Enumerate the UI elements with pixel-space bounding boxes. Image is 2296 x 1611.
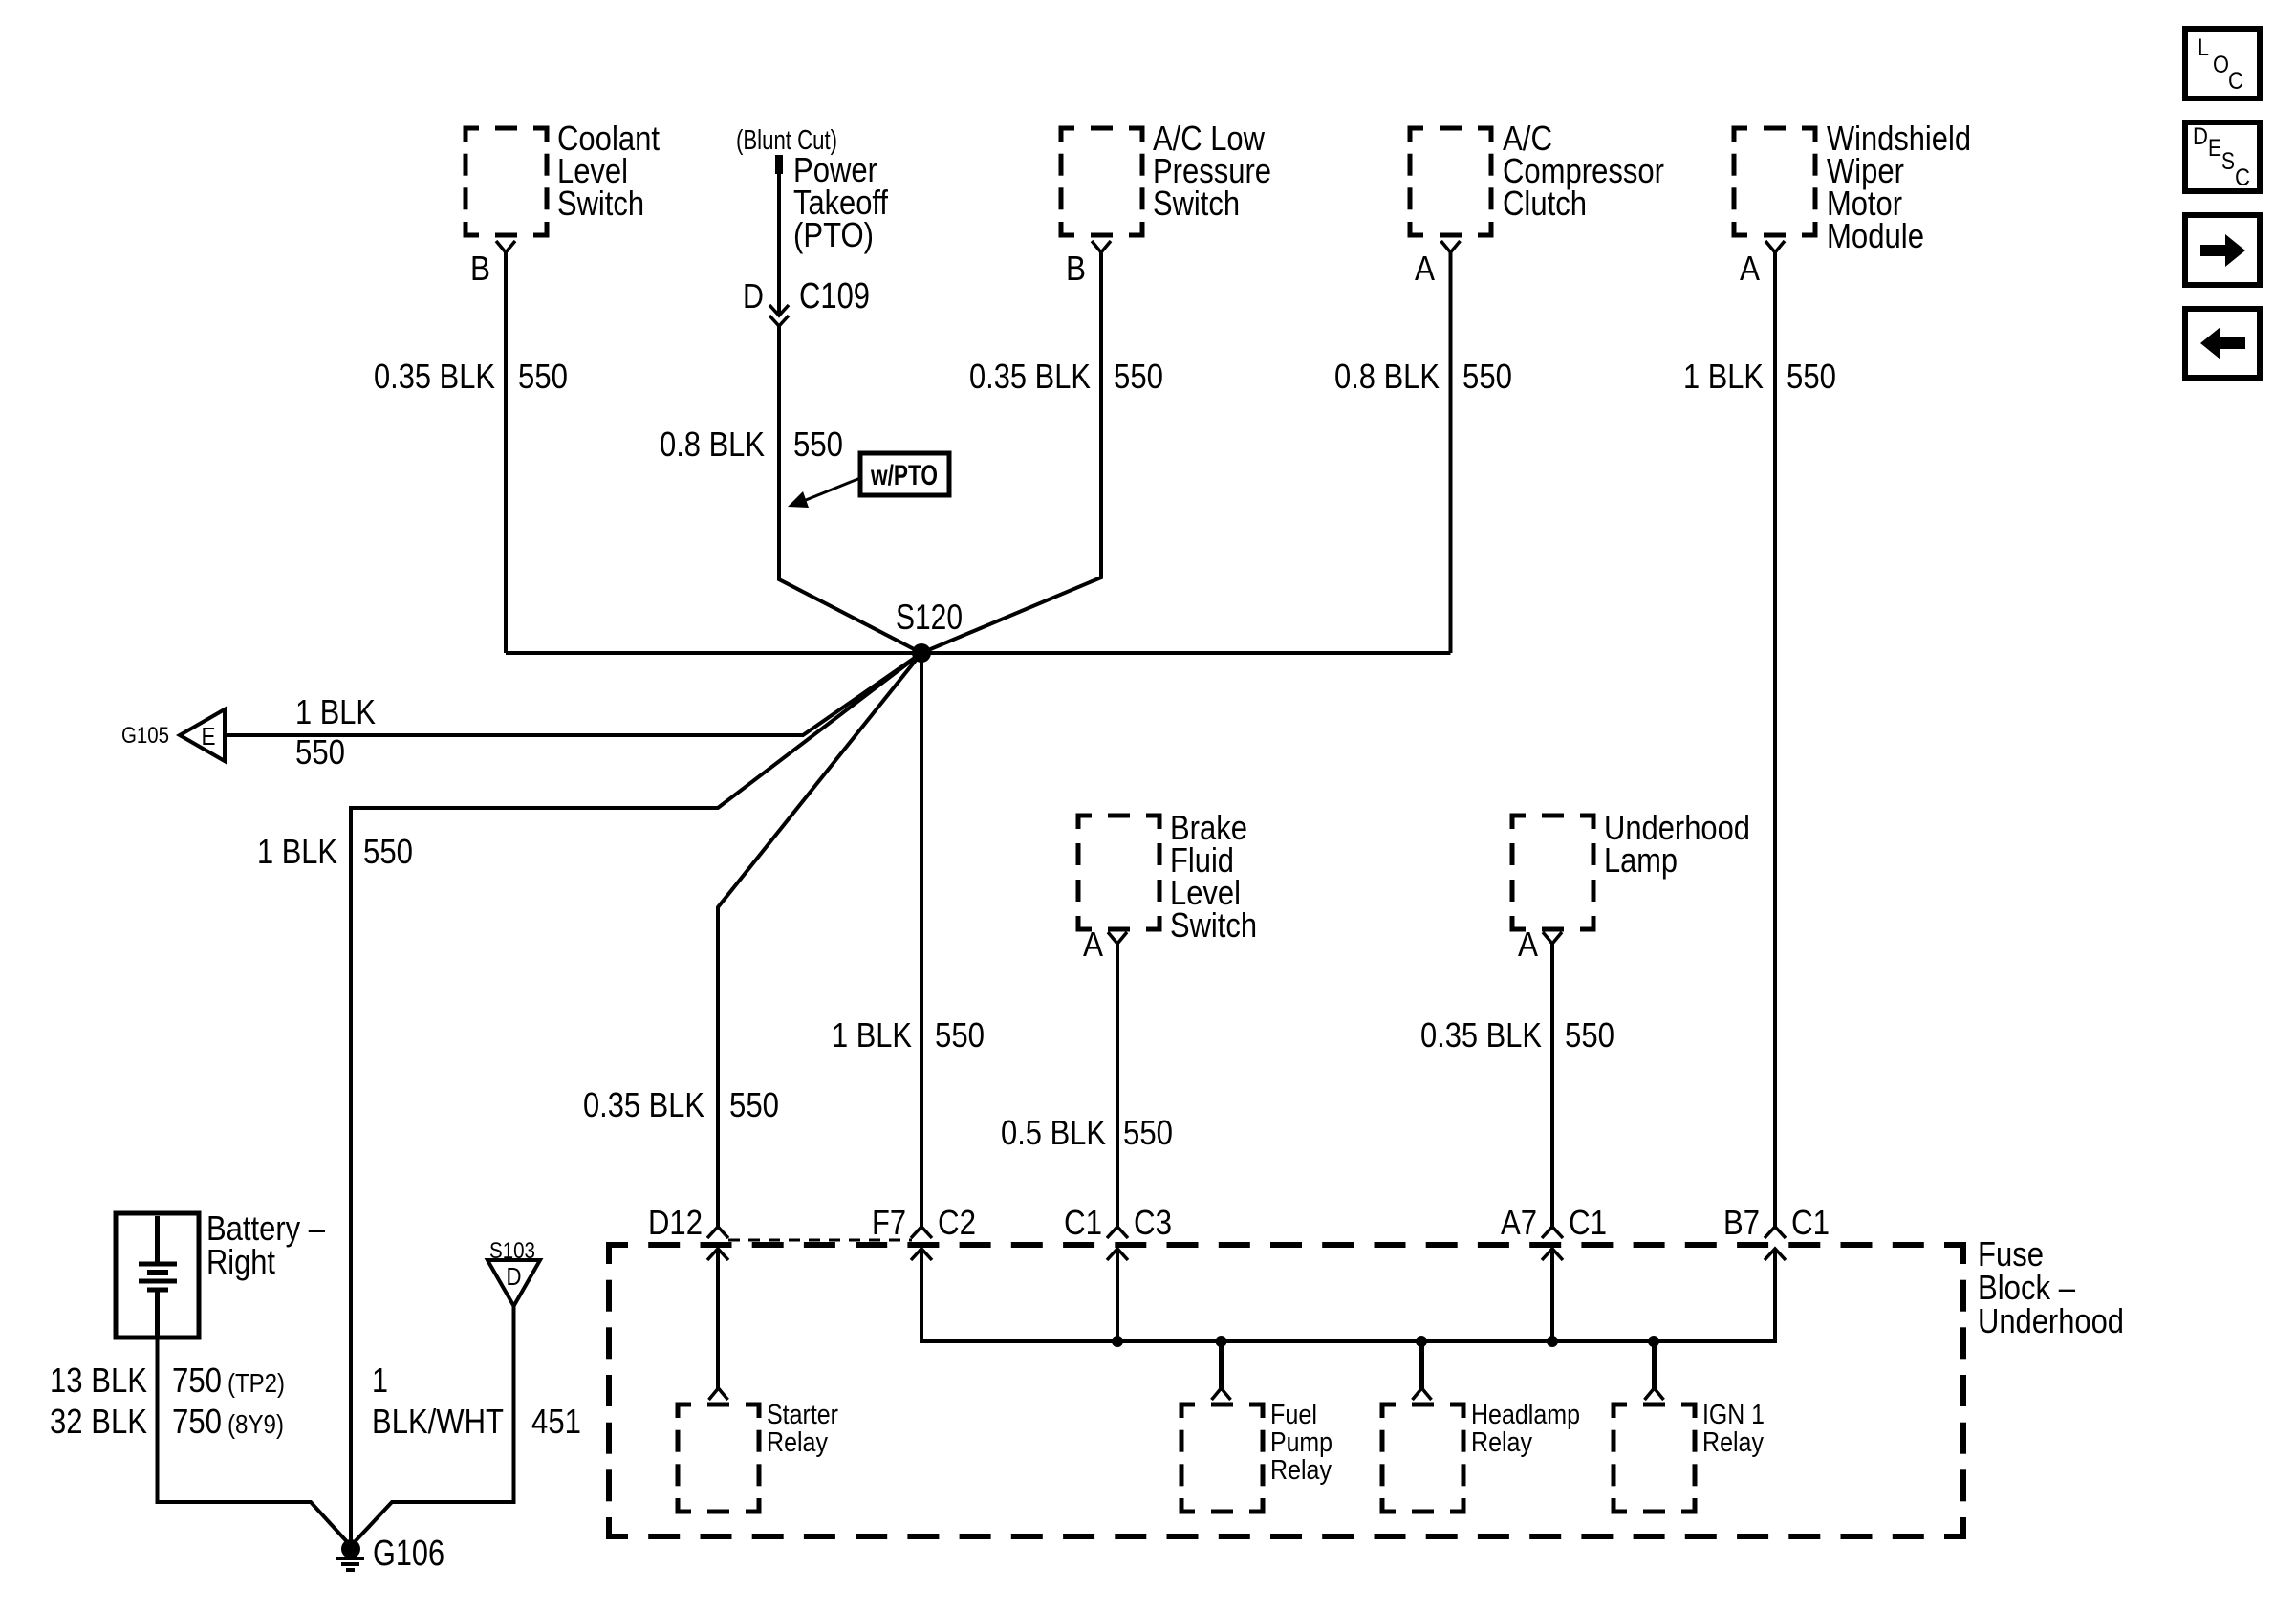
pin label B7 C1 — [1723, 1203, 1830, 1242]
svg-text:E: E — [202, 722, 216, 751]
connector fork at A/C Compressor Clutch pin A — [1441, 241, 1461, 252]
svg-text:E: E — [2208, 135, 2221, 162]
svg-text:BLK/WHT: BLK/WHT — [372, 1402, 504, 1441]
svg-text:550: 550 — [793, 425, 843, 464]
svg-text:1 BLK: 1 BLK — [257, 832, 337, 871]
svg-text:(TP2): (TP2) — [227, 1368, 285, 1398]
connector box Coolant Level Switch — [466, 128, 547, 235]
junction at C3 bus — [1112, 1336, 1123, 1347]
svg-text:1: 1 — [372, 1361, 388, 1400]
wire 0.35 BLK 550 from Coolant Level Switch to S120 — [504, 252, 508, 653]
wire label BLK/WHT 451 — [372, 1402, 581, 1441]
wire 1 BLK 550 from S120 to G105 — [225, 653, 921, 735]
svg-text:Clutch: Clutch — [1503, 184, 1587, 223]
svg-text:1 BLK: 1 BLK — [1683, 357, 1764, 396]
pin label C1 C3 — [1064, 1203, 1172, 1242]
svg-text:(PTO): (PTO) — [793, 215, 874, 254]
svg-text:B: B — [1066, 249, 1086, 288]
svg-text:(8Y9): (8Y9) — [227, 1409, 284, 1439]
label Battery - Right — [206, 1208, 325, 1281]
svg-text:S103: S103 — [489, 1238, 535, 1264]
svg-text:B7: B7 — [1723, 1203, 1760, 1242]
svg-text:Underhood: Underhood — [1978, 1301, 2124, 1340]
svg-text:C1: C1 — [1064, 1203, 1102, 1242]
svg-text:A: A — [1083, 925, 1103, 964]
svg-text:C: C — [2228, 68, 2243, 95]
fuse block underhood dashed outline — [609, 1245, 1963, 1536]
wire 0.35 BLK 550 from Underhood Lamp to fuse block pin C1 — [1550, 944, 1554, 1227]
svg-text:1 BLK: 1 BLK — [295, 692, 376, 731]
svg-text:32 BLK: 32 BLK — [50, 1402, 147, 1441]
svg-text:D: D — [507, 1262, 522, 1291]
junction at A7 bus — [1547, 1336, 1558, 1347]
svg-text:550: 550 — [729, 1085, 779, 1124]
svg-text:D: D — [2193, 123, 2208, 150]
svg-text:550: 550 — [1123, 1113, 1173, 1152]
pin label A7 C1 — [1501, 1203, 1607, 1242]
svg-text:550: 550 — [518, 357, 568, 396]
wire 0.8 BLK 550 from C109 to S120 — [779, 326, 921, 653]
svg-text:Switch: Switch — [557, 184, 644, 223]
svg-text:C109: C109 — [799, 276, 870, 316]
svg-text:A: A — [1518, 925, 1538, 964]
label Windshield Wiper Motor Module — [1827, 119, 1971, 255]
connector fork at Coolant Level Switch pin B — [496, 241, 515, 252]
svg-text:451: 451 — [531, 1402, 581, 1441]
wire 0.5 BLK 550 from Brake Fluid Level Switch to fuse block pin C3 — [1116, 944, 1119, 1227]
pin label D12 — [648, 1203, 703, 1242]
svg-text:C1: C1 — [1791, 1203, 1830, 1242]
svg-text:G105: G105 — [121, 723, 169, 749]
arrow into fuse block at pin F7/C2 — [911, 1249, 932, 1260]
connector dashed strip between D12 and F7 — [728, 1239, 912, 1242]
connector fork at fuse block pin D12 — [707, 1227, 728, 1238]
svg-text:Fuel: Fuel — [1270, 1400, 1317, 1430]
icon DESC box — [2185, 122, 2260, 191]
wire PTO lead to connector C109 — [777, 172, 781, 314]
wire 1 BLK 550 from S120 down to fuse block pin F7 — [920, 653, 923, 1227]
fuse block internal ground bus wire — [921, 1249, 1775, 1341]
label Power Takeoff (PTO) — [793, 150, 889, 254]
wire label 1 BLK 550 (wiper wire) — [1683, 357, 1836, 396]
label Starter Relay — [767, 1400, 838, 1458]
connector fork C109 — [769, 316, 789, 326]
wire label 0.35 BLK 550 (D12 wire) — [583, 1085, 779, 1124]
connector box Brake Fluid Level Switch — [1078, 816, 1159, 929]
svg-text:Switch: Switch — [1170, 905, 1257, 945]
label Fuel Pump Relay — [1270, 1400, 1332, 1486]
icon LOC box — [2185, 29, 2260, 98]
svg-text:550: 550 — [1787, 357, 1836, 396]
splice S120 — [912, 643, 931, 663]
svg-text:Module: Module — [1827, 216, 1924, 255]
ground symbol G106 — [336, 1558, 364, 1570]
svg-text:750: 750 — [172, 1361, 222, 1400]
connector box Windshield Wiper Motor Module — [1734, 128, 1815, 235]
wire label 1 BLK 550 (S120 to F7 wire) — [832, 1015, 985, 1055]
arrow into fuse block at pin C1/C3 — [1107, 1249, 1128, 1260]
svg-text:D: D — [743, 276, 764, 316]
wire label 0.35 BLK 550 (A/C low pressure wire) — [969, 357, 1163, 396]
arrow into connector C109 — [769, 305, 789, 316]
svg-text:C2: C2 — [938, 1203, 976, 1242]
connector fork at A/C Low Pressure Switch pin B — [1092, 241, 1111, 252]
icon previous-page arrow box — [2185, 309, 2260, 378]
connector box A/C Low Pressure Switch — [1061, 128, 1142, 235]
svg-text:Relay: Relay — [1270, 1455, 1332, 1486]
svg-text:Switch: Switch — [1153, 184, 1240, 223]
svg-text:A7: A7 — [1501, 1203, 1537, 1242]
connector fork at IGN 1 Relay — [1645, 1388, 1664, 1400]
svg-text:0.35 BLK: 0.35 BLK — [374, 357, 495, 396]
svg-text:550: 550 — [1114, 357, 1163, 396]
relay box Fuel Pump Relay — [1181, 1404, 1263, 1512]
connector fork at fuse block pin F7/C2 — [911, 1227, 932, 1238]
svg-text:A: A — [1415, 249, 1435, 288]
wire label 32 BLK 750 (8Y9) — [50, 1402, 284, 1441]
svg-text:1 BLK: 1 BLK — [832, 1015, 912, 1055]
svg-text:0.5 BLK: 0.5 BLK — [1001, 1113, 1106, 1152]
wire label 1 BLK 550 (G106 wire) — [257, 832, 413, 871]
wire label 0.35 BLK 550 (coolant wire) — [374, 357, 568, 396]
wire 1 BLK/WHT 451 from S103 to ground G106 — [351, 1306, 514, 1546]
callout box w/PTO — [860, 453, 949, 495]
wire stem below pin C1/C3 — [1116, 1249, 1119, 1341]
splice reference triangle S103 pin D — [487, 1260, 540, 1306]
callout arrow w/PTO — [788, 478, 860, 508]
battery box Battery - Right — [116, 1213, 199, 1338]
svg-text:A: A — [1740, 249, 1760, 288]
connector fork at Fuel Pump Relay — [1212, 1388, 1231, 1400]
junction at fuel pump relay branch — [1216, 1336, 1227, 1347]
connector fork at fuse block pin A7/C1 — [1542, 1227, 1563, 1238]
svg-text:L: L — [2198, 34, 2209, 61]
connector fork at Starter Relay — [709, 1388, 728, 1400]
svg-text:D12: D12 — [648, 1203, 703, 1242]
svg-text:IGN 1: IGN 1 — [1702, 1400, 1765, 1430]
svg-text:Pump: Pump — [1270, 1427, 1332, 1458]
connector fork at Headlamp Relay — [1413, 1388, 1432, 1400]
relay box IGN 1 Relay — [1614, 1404, 1695, 1512]
wire 0.35 BLK 550 from A/C Low Pressure Switch to S120 — [921, 252, 1101, 653]
svg-text:w/PTO: w/PTO — [870, 460, 938, 491]
relay box Headlamp Relay — [1382, 1404, 1463, 1512]
svg-text:13 BLK: 13 BLK — [50, 1361, 147, 1400]
svg-text:550: 550 — [363, 832, 413, 871]
svg-text:0.8 BLK: 0.8 BLK — [1334, 357, 1440, 396]
wire 0.35 BLK 550 from S120 to fuse block pin D12 — [718, 653, 921, 1227]
svg-text:550: 550 — [295, 732, 345, 772]
wire label 0.8 BLK 550 (compressor wire) — [1334, 357, 1512, 396]
battery symbol — [139, 1216, 177, 1336]
svg-text:0.8 BLK: 0.8 BLK — [660, 425, 765, 464]
wire 1 BLK 550 from S120 to ground G106 — [351, 653, 921, 1540]
svg-text:C: C — [2235, 164, 2250, 191]
svg-text:C3: C3 — [1134, 1203, 1172, 1242]
wire stem below pin A7/C1 — [1550, 1249, 1554, 1341]
svg-text:550: 550 — [1565, 1015, 1614, 1055]
arrow into fuse block at pin A7/C1 — [1542, 1249, 1563, 1260]
junction at headlamp relay branch — [1416, 1336, 1427, 1347]
connector fork at Underhood Lamp pin A — [1543, 932, 1562, 944]
svg-text:F7: F7 — [872, 1203, 906, 1242]
wire label 0.8 BLK 550 (PTO wire) — [660, 425, 843, 464]
connector fork at fuse block pin B7/C1 — [1765, 1227, 1786, 1238]
svg-text:B: B — [470, 249, 490, 288]
connector fork at Windshield Wiper Motor Module pin A — [1765, 241, 1785, 252]
svg-text:0.35 BLK: 0.35 BLK — [969, 357, 1091, 396]
blunt cut terminal of PTO lead — [775, 155, 783, 174]
connector box Underhood Lamp — [1512, 816, 1593, 929]
ground G106 junction — [341, 1539, 360, 1558]
svg-text:G106: G106 — [373, 1534, 444, 1574]
ground reference triangle G105 pin E — [180, 709, 225, 761]
pin label F7 C2 — [872, 1203, 976, 1242]
wire label 0.5 BLK 550 — [1001, 1113, 1173, 1152]
label Fuse Block - Underhood — [1978, 1234, 2124, 1340]
svg-text:Relay: Relay — [767, 1427, 828, 1458]
svg-text:O: O — [2213, 52, 2229, 78]
label Headlamp Relay — [1471, 1400, 1580, 1458]
svg-text:Relay: Relay — [1702, 1427, 1764, 1458]
svg-text:S: S — [2221, 148, 2235, 175]
label Underhood Lamp — [1604, 808, 1750, 880]
svg-text:0.35 BLK: 0.35 BLK — [583, 1085, 704, 1124]
wire 0.8 BLK 550 from A/C Compressor Clutch to S120 — [1449, 252, 1453, 653]
wire stem below pin D12 — [716, 1249, 720, 1388]
svg-text:550: 550 — [1462, 357, 1512, 396]
label A/C Low Pressure Switch — [1153, 119, 1271, 223]
svg-text:Lamp: Lamp — [1604, 840, 1678, 880]
arrow into fuse block at pin B7/C1 — [1765, 1249, 1786, 1260]
wire label 0.35 BLK 550 (underhood lamp wire) — [1420, 1015, 1614, 1055]
arrow into fuse block at pin D12 — [707, 1249, 728, 1260]
svg-text:Starter: Starter — [767, 1400, 838, 1430]
wire label 13 BLK 750 (TP2) — [50, 1361, 285, 1400]
svg-text:750: 750 — [172, 1402, 222, 1441]
label IGN 1 Relay — [1702, 1400, 1765, 1458]
connector box A/C Compressor Clutch — [1410, 128, 1491, 235]
svg-text:Right: Right — [206, 1242, 275, 1281]
connector fork at Brake Fluid Level Switch pin A — [1108, 932, 1127, 944]
wire splice bus through S120 — [506, 651, 1451, 655]
wire branch to Headlamp Relay — [1419, 1341, 1424, 1388]
icon next-page arrow box — [2185, 215, 2260, 285]
junction at IGN 1 relay branch — [1648, 1336, 1659, 1347]
label Brake Fluid Level Switch — [1170, 808, 1257, 945]
relay box Starter Relay — [678, 1404, 759, 1512]
connector fork at fuse block pin C1/C3 — [1107, 1227, 1128, 1238]
wire 13/32 BLK 750 from battery to ground G106 — [158, 1338, 352, 1546]
svg-text:S120: S120 — [896, 598, 963, 637]
wire branch to Fuel Pump Relay — [1219, 1341, 1224, 1388]
svg-text:0.35 BLK: 0.35 BLK — [1420, 1015, 1542, 1055]
wire 1 BLK 550 from Windshield Wiper Motor Module to fuse block pin B7 — [1773, 252, 1777, 1227]
label A/C Compressor Clutch — [1503, 119, 1664, 223]
svg-text:C1: C1 — [1569, 1203, 1607, 1242]
svg-text:Relay: Relay — [1471, 1427, 1532, 1458]
label Coolant Level Switch — [557, 119, 660, 223]
svg-text:550: 550 — [935, 1015, 985, 1055]
wire branch to IGN 1 Relay — [1652, 1341, 1657, 1388]
svg-text:Headlamp: Headlamp — [1471, 1400, 1580, 1430]
